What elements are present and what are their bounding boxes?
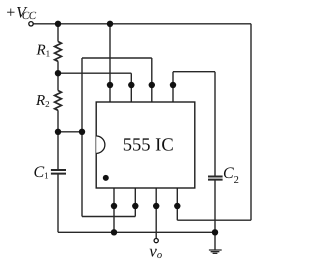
terminal +VCC <box>29 22 33 26</box>
svg-text:+VCC: +VCC <box>5 4 36 22</box>
wire top VCC rail <box>33 23 251 25</box>
node VCC rail / pin 8 <box>107 21 113 27</box>
wire R2 bottom lead <box>57 110 59 132</box>
wire R1/R2 junction to pin 7 <box>58 73 131 102</box>
wire C2 bottom lead to ground <box>214 180 216 250</box>
wire pin 6 threshold to node <box>82 58 152 102</box>
wire pin 8 VCC lead <box>109 24 111 102</box>
notch <box>96 136 105 153</box>
resistor R1 <box>55 42 62 62</box>
node pin 5 top <box>170 82 176 88</box>
node pin 7 top <box>128 82 134 88</box>
wire pin 5 control to C2 <box>173 72 215 177</box>
node ground rail / C2 <box>212 229 218 235</box>
capacitor C1 <box>51 170 66 174</box>
wire pin 3 output lead <box>155 188 157 238</box>
op-amp U1 : 555 IC body <box>96 102 195 188</box>
node pin 2 bottom <box>132 203 138 209</box>
wire C1 bottom lead to ground rail <box>57 174 59 233</box>
svg-text:R2: R2 <box>35 93 50 109</box>
wire ground rail <box>58 231 215 233</box>
ground <box>209 250 222 253</box>
pin 1 marker dot <box>103 175 109 181</box>
node ground rail / pin 1 <box>111 229 117 235</box>
node pin 1 bottom <box>111 203 117 209</box>
terminal vo <box>154 239 158 243</box>
capacitor C2 <box>208 177 223 180</box>
node pin 4 bottom <box>174 203 180 209</box>
node threshold vertical <box>79 129 85 135</box>
node pin 8 top <box>107 82 113 88</box>
node R2/C1 junction <box>55 129 61 135</box>
node pin 6 top <box>149 82 155 88</box>
wire R1 top lead <box>57 24 59 42</box>
node pin 3 bottom <box>153 203 159 209</box>
resistor R2 <box>55 91 62 111</box>
wire R2/C1 junction to threshold node <box>58 131 82 133</box>
wire reset pin 4 to VCC right side <box>177 188 251 220</box>
wire C1 top lead <box>57 132 59 170</box>
svg-text:C2: C2 <box>223 165 239 186</box>
node VCC rail / R1 <box>55 21 61 27</box>
wire right vertical from VCC rail <box>250 24 252 220</box>
wire threshold/trigger vertical node <box>81 58 83 217</box>
wire pin 2 trigger to node <box>82 188 135 217</box>
wire R2 top lead <box>57 73 59 90</box>
svg-text:R1: R1 <box>36 42 51 58</box>
wire R1 bottom lead <box>57 61 59 73</box>
wire pin 1 ground lead <box>113 188 115 232</box>
node R1/R2 junction <box>55 70 61 76</box>
svg-text:555 IC: 555 IC <box>123 135 174 155</box>
svg-text:vo: vo <box>149 242 162 262</box>
svg-text:C1: C1 <box>34 164 49 181</box>
